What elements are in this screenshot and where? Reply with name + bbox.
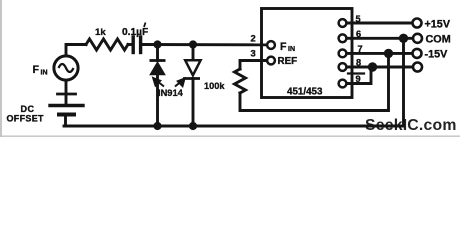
svg-text:100k: 100k <box>204 81 225 91</box>
svg-text:IN: IN <box>41 70 48 77</box>
pin 8 circle <box>339 63 347 71</box>
wire: diode D1 top lead <box>156 45 159 61</box>
junction dot COM row / ground vertical <box>399 34 408 43</box>
wire: diode D2 top lead <box>192 45 195 60</box>
pin 2 terminal circle <box>267 41 275 49</box>
wire: 100k bottom run to -15V vertical <box>240 53 389 110</box>
svg-text:F: F <box>33 64 40 76</box>
wire: battery to ground rail <box>64 117 67 127</box>
pin 9 label box top line <box>348 72 364 74</box>
svg-text:IN914: IN914 <box>158 88 184 98</box>
svg-text:9: 9 <box>356 74 361 84</box>
IN914 label arrows <box>153 78 184 87</box>
pin 9 circle <box>339 80 347 88</box>
diode D1 1N914 (left, pointing up) <box>150 61 166 75</box>
battery crossbar <box>58 93 76 96</box>
svg-text:7: 7 <box>358 44 363 54</box>
resistor R 1k <box>86 39 128 50</box>
wire: diode D2 bottom lead <box>192 79 195 127</box>
wire: REF pin 3 to 100k top <box>240 61 267 70</box>
junction dot pin8/pin9 tie <box>368 62 377 71</box>
junction dot D2 at ground rail <box>189 122 197 130</box>
pin 6 circle <box>339 34 347 42</box>
svg-text:451/453: 451/453 <box>287 87 323 98</box>
IC U1 box 451/453 <box>262 9 353 98</box>
battery long plate <box>50 104 83 107</box>
pin 3 terminal circle <box>267 57 275 65</box>
wire: AC source bottom stub <box>65 81 68 105</box>
svg-text:REF: REF <box>278 56 298 67</box>
wire: pin 5 row to +15V <box>347 22 413 25</box>
ground rail (bottom) <box>64 38 404 126</box>
scan edge artifact bottom <box>0 135 460 137</box>
wire: pin 6 row to COM <box>347 37 413 40</box>
svg-text:COM: COM <box>426 33 451 45</box>
junction dot at D2 <box>189 40 197 48</box>
terminal +15V circle <box>413 19 422 28</box>
AC source sine <box>59 64 74 72</box>
svg-text:+15V: +15V <box>425 18 451 30</box>
svg-text:1k: 1k <box>95 27 106 38</box>
pin 5 circle <box>339 19 347 27</box>
capacitor C 0.1uF plates <box>131 37 134 53</box>
scan edge artifact left <box>0 0 2 137</box>
svg-text:2: 2 <box>251 33 256 44</box>
diode D2 1N914 (right, pointing down, open) <box>183 60 201 78</box>
terminal -15V circle <box>413 49 422 58</box>
wire: pin 7 row to -15V <box>347 52 413 55</box>
svg-text:3: 3 <box>251 48 256 59</box>
svg-text:F: F <box>280 41 287 53</box>
svg-text:-15V: -15V <box>425 48 449 60</box>
svg-text:6: 6 <box>356 29 361 39</box>
svg-text:5: 5 <box>356 14 361 24</box>
svg-text:0.1µF: 0.1µF <box>122 27 148 38</box>
wire: diode D1 bottom lead <box>156 75 159 127</box>
pin 7 circle <box>339 50 347 58</box>
resistor R 100k <box>235 69 246 93</box>
junction dot D1 at ground rail <box>153 122 161 130</box>
wire: resistor to capacitor <box>128 43 132 46</box>
junction dot at capacitor/D1 <box>153 40 161 48</box>
AC source V1 circle <box>54 56 78 80</box>
terminal COM circle <box>413 34 422 43</box>
svg-text:8: 8 <box>356 58 361 68</box>
wire: pin 8 row to output terminal <box>347 66 413 69</box>
stray apostrophe mark above uF <box>144 23 146 28</box>
battery short plate <box>59 113 74 117</box>
wire: pin 9 row joining pin 8 <box>347 67 372 84</box>
wire: capacitor to pin 2 of U1 <box>142 43 267 46</box>
junction dot -15V row / 100k vertical <box>384 49 393 58</box>
svg-text:OFFSET: OFFSET <box>7 113 45 123</box>
svg-text:IN: IN <box>288 46 295 53</box>
terminal output circle <box>413 63 422 72</box>
wire: top run from source corner to resistor <box>66 45 86 56</box>
